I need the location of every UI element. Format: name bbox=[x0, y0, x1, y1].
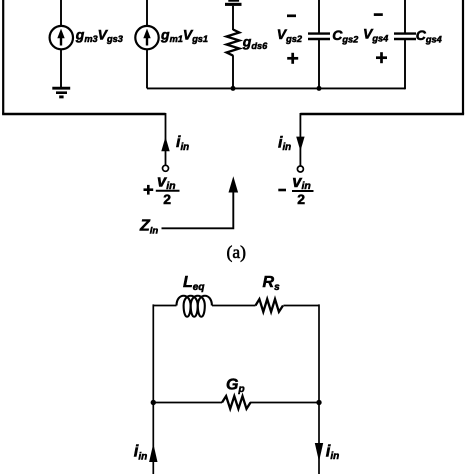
svg-text:(a): (a) bbox=[227, 242, 247, 262]
svg-text:2: 2 bbox=[163, 191, 171, 207]
svg-text:2: 2 bbox=[297, 191, 305, 207]
